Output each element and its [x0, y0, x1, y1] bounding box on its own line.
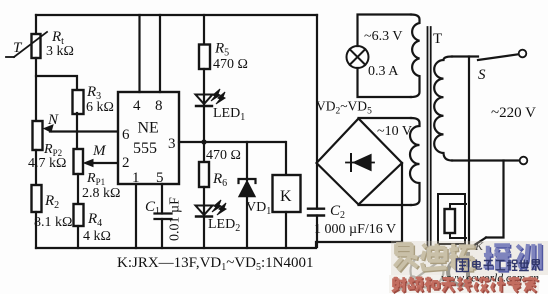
svg-text:N: N: [47, 112, 59, 128]
junction node: [201, 139, 206, 144]
wire bottom rail: [36, 242, 402, 248]
relay K: [273, 175, 301, 212]
wire primary top: [452, 55, 478, 57]
svg-text:NE: NE: [138, 120, 159, 137]
fuse: [445, 204, 467, 238]
svg-text:470 Ω: 470 Ω: [206, 148, 241, 163]
wire C2 to ground: [316, 216, 318, 248]
wire pin3 line down to relay: [285, 142, 287, 175]
winding primary: [434, 57, 452, 161]
svg-text:555: 555: [133, 140, 157, 157]
wire N to pin6: [50, 130, 118, 132]
wire contact to mains: [486, 161, 504, 238]
core: [427, 27, 429, 252]
wire left rail upper: [35, 15, 37, 34]
wire pin4 to rail: [138, 15, 140, 92]
svg-text:0.3 A: 0.3 A: [368, 64, 399, 79]
svg-text:~10 V: ~10 V: [377, 124, 412, 139]
wire bridge bottom AC to winding: [359, 204, 412, 206]
resistor R4: [74, 204, 84, 226]
svg-text:K:JRX—13F,VD1~VD5:1N4001: K:JRX—13F,VD1~VD5:1N4001: [117, 255, 314, 273]
wire VD1 branch: [246, 142, 248, 180]
wire R5 branch top: [203, 15, 205, 45]
wire VD1 to ground: [246, 196, 248, 248]
LED2: [196, 200, 227, 217]
wire left rail lower: [35, 150, 37, 185]
capacitor C2: [308, 209, 324, 216]
svg-text:M: M: [92, 143, 107, 159]
svg-text:K: K: [280, 188, 292, 205]
svg-text:6 kΩ: 6 kΩ: [86, 100, 114, 115]
resistor R6: [199, 162, 209, 187]
diode VD1: [239, 179, 256, 197]
wire R6 through LED2 to ground rail: [203, 187, 205, 248]
resistor R3: [73, 90, 84, 114]
relay contact K: [469, 238, 486, 249]
bridge rectifier VD2~VD5: [317, 119, 403, 205]
watermark: [389, 241, 548, 293]
svg-text:3 kΩ: 3 kΩ: [46, 44, 74, 59]
wire R5 branch through LED1 down to pin3 node: [203, 69, 205, 142]
op-amp U1 NE555: [118, 92, 179, 184]
svg-text:4.7 kΩ: 4.7 kΩ: [28, 156, 66, 171]
svg-text:4 kΩ: 4 kΩ: [83, 229, 111, 244]
svg-text:1 000 µF/16 V: 1 000 µF/16 V: [314, 222, 396, 237]
winding 10V: [410, 118, 420, 205]
svg-text:S: S: [478, 67, 486, 83]
wire R2 to bottom rail: [35, 212, 37, 248]
wire C1 to ground: [161, 219, 163, 248]
wire R3 bottom to N line and RP1: [76, 113, 78, 149]
wire bridge top AC to winding: [359, 117, 412, 119]
resistor R2: [32, 185, 42, 212]
wire left rail mid: [35, 58, 37, 121]
wire lamp loop: [358, 15, 412, 47]
lamp: [347, 46, 369, 68]
wire pin5 to C1: [161, 184, 163, 214]
svg-text:470 Ω: 470 Ω: [213, 57, 248, 72]
wire pin8 to rail: [159, 15, 161, 92]
load heater box: [438, 194, 465, 244]
svg-text:0.01 µF: 0.01 µF: [168, 197, 183, 241]
wire bridge minus down: [401, 163, 403, 242]
capacitor C1: [155, 214, 172, 220]
svg-text:2.8 kΩ: 2.8 kΩ: [82, 186, 120, 201]
wire relay to ground: [285, 212, 287, 248]
thermistor RT: [6, 32, 47, 58]
svg-text:6: 6: [122, 127, 130, 143]
wire branch to R3: [36, 76, 77, 91]
wire R4 to bottom rail: [77, 226, 79, 248]
terminal: [520, 157, 528, 165]
svg-text:8.1 kΩ: 8.1 kΩ: [34, 215, 72, 230]
svg-text:2: 2: [122, 155, 130, 171]
wire top rail: [36, 14, 317, 16]
svg-text:4: 4: [133, 98, 141, 114]
wire pin3 output: [179, 141, 285, 143]
svg-text:T: T: [433, 31, 442, 47]
wire RP1 to R4: [77, 174, 79, 204]
wire pin1 to ground: [135, 184, 137, 248]
wire load branch vertical: [468, 57, 470, 249]
potentiometer RP1: [74, 149, 94, 174]
resistor R5: [199, 45, 210, 70]
winding 6.3V: [411, 15, 420, 98]
svg-text:~220 V: ~220 V: [491, 105, 536, 121]
svg-text:8: 8: [155, 98, 163, 114]
wire M to pin2: [92, 162, 118, 164]
svg-text:~6.3 V: ~6.3 V: [364, 29, 402, 44]
potentiometer RP2: [33, 121, 54, 150]
LED1: [196, 89, 226, 106]
wire junction to R6: [203, 142, 205, 162]
wire right +V rail: [316, 15, 318, 209]
svg-text:3: 3: [168, 136, 176, 152]
wire primary bottom to terminal: [452, 159, 520, 161]
switch S: [478, 50, 526, 60]
